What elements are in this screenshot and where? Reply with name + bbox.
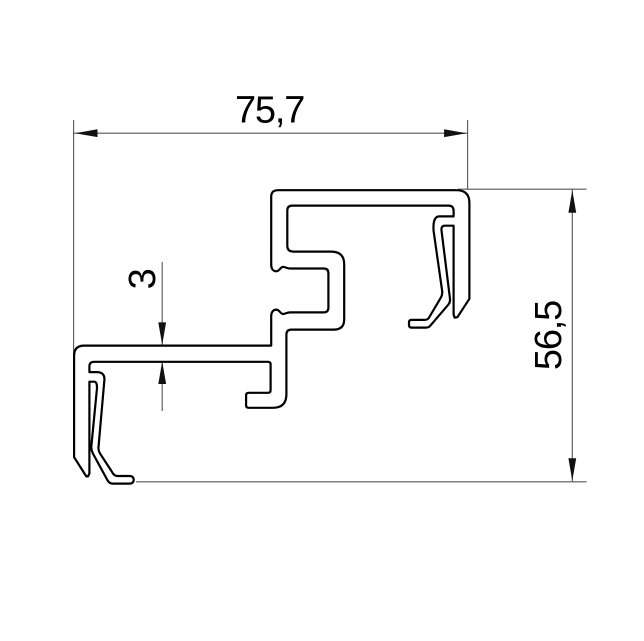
dimension line 75,7 bbox=[74, 132, 468, 134]
extension line right (75,7) bbox=[467, 120, 469, 190]
arrow left 75,7 bbox=[75, 129, 98, 137]
arrow lower 3 (points up at wall bottom) bbox=[158, 362, 166, 385]
arrow right 75,7 bbox=[444, 129, 467, 137]
arrow bottom 56,5 bbox=[568, 458, 576, 481]
svg-text:56,5: 56,5 bbox=[528, 301, 570, 370]
dimension line 3 (vertical through wall) bbox=[161, 262, 163, 411]
svg-text:75,7: 75,7 bbox=[235, 90, 304, 132]
dimension line 56,5 bbox=[571, 189, 573, 482]
arrow top 56,5 bbox=[568, 190, 576, 213]
arrow upper 3 (points down at wall top) bbox=[158, 322, 166, 345]
aluminium profile cross-section outline bbox=[74, 190, 469, 483]
extension line left (75,7) bbox=[73, 120, 75, 356]
svg-text:3: 3 bbox=[122, 268, 164, 289]
extension line top (56,5) bbox=[458, 188, 587, 190]
extension line bottom (56,5) bbox=[136, 481, 587, 483]
